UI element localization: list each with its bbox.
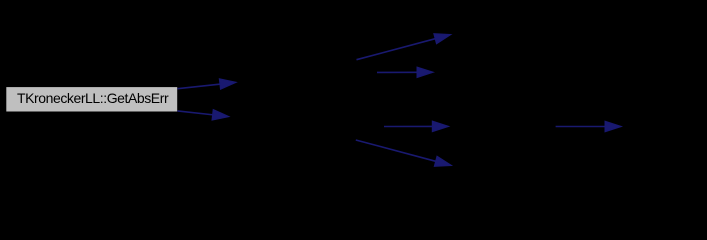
edge A3: node2a -> node3a [357, 34, 452, 60]
node TKroneckerLL::GetAbsErr [6, 87, 177, 111]
edge A6: node2b -> node3d [356, 140, 452, 166]
svg-text:TKroneckerLL::GetAbsErr: TKroneckerLL::GetAbsErr [17, 90, 169, 106]
edge A5: node2b -> node3c [384, 121, 449, 132]
edge A2: GetAbsErr -> node2b [178, 110, 229, 121]
edge A1: GetAbsErr -> node2a [178, 79, 237, 90]
edge A7: node3c -> node4 [556, 121, 622, 132]
edge A4: node2a -> node3b [377, 67, 433, 78]
